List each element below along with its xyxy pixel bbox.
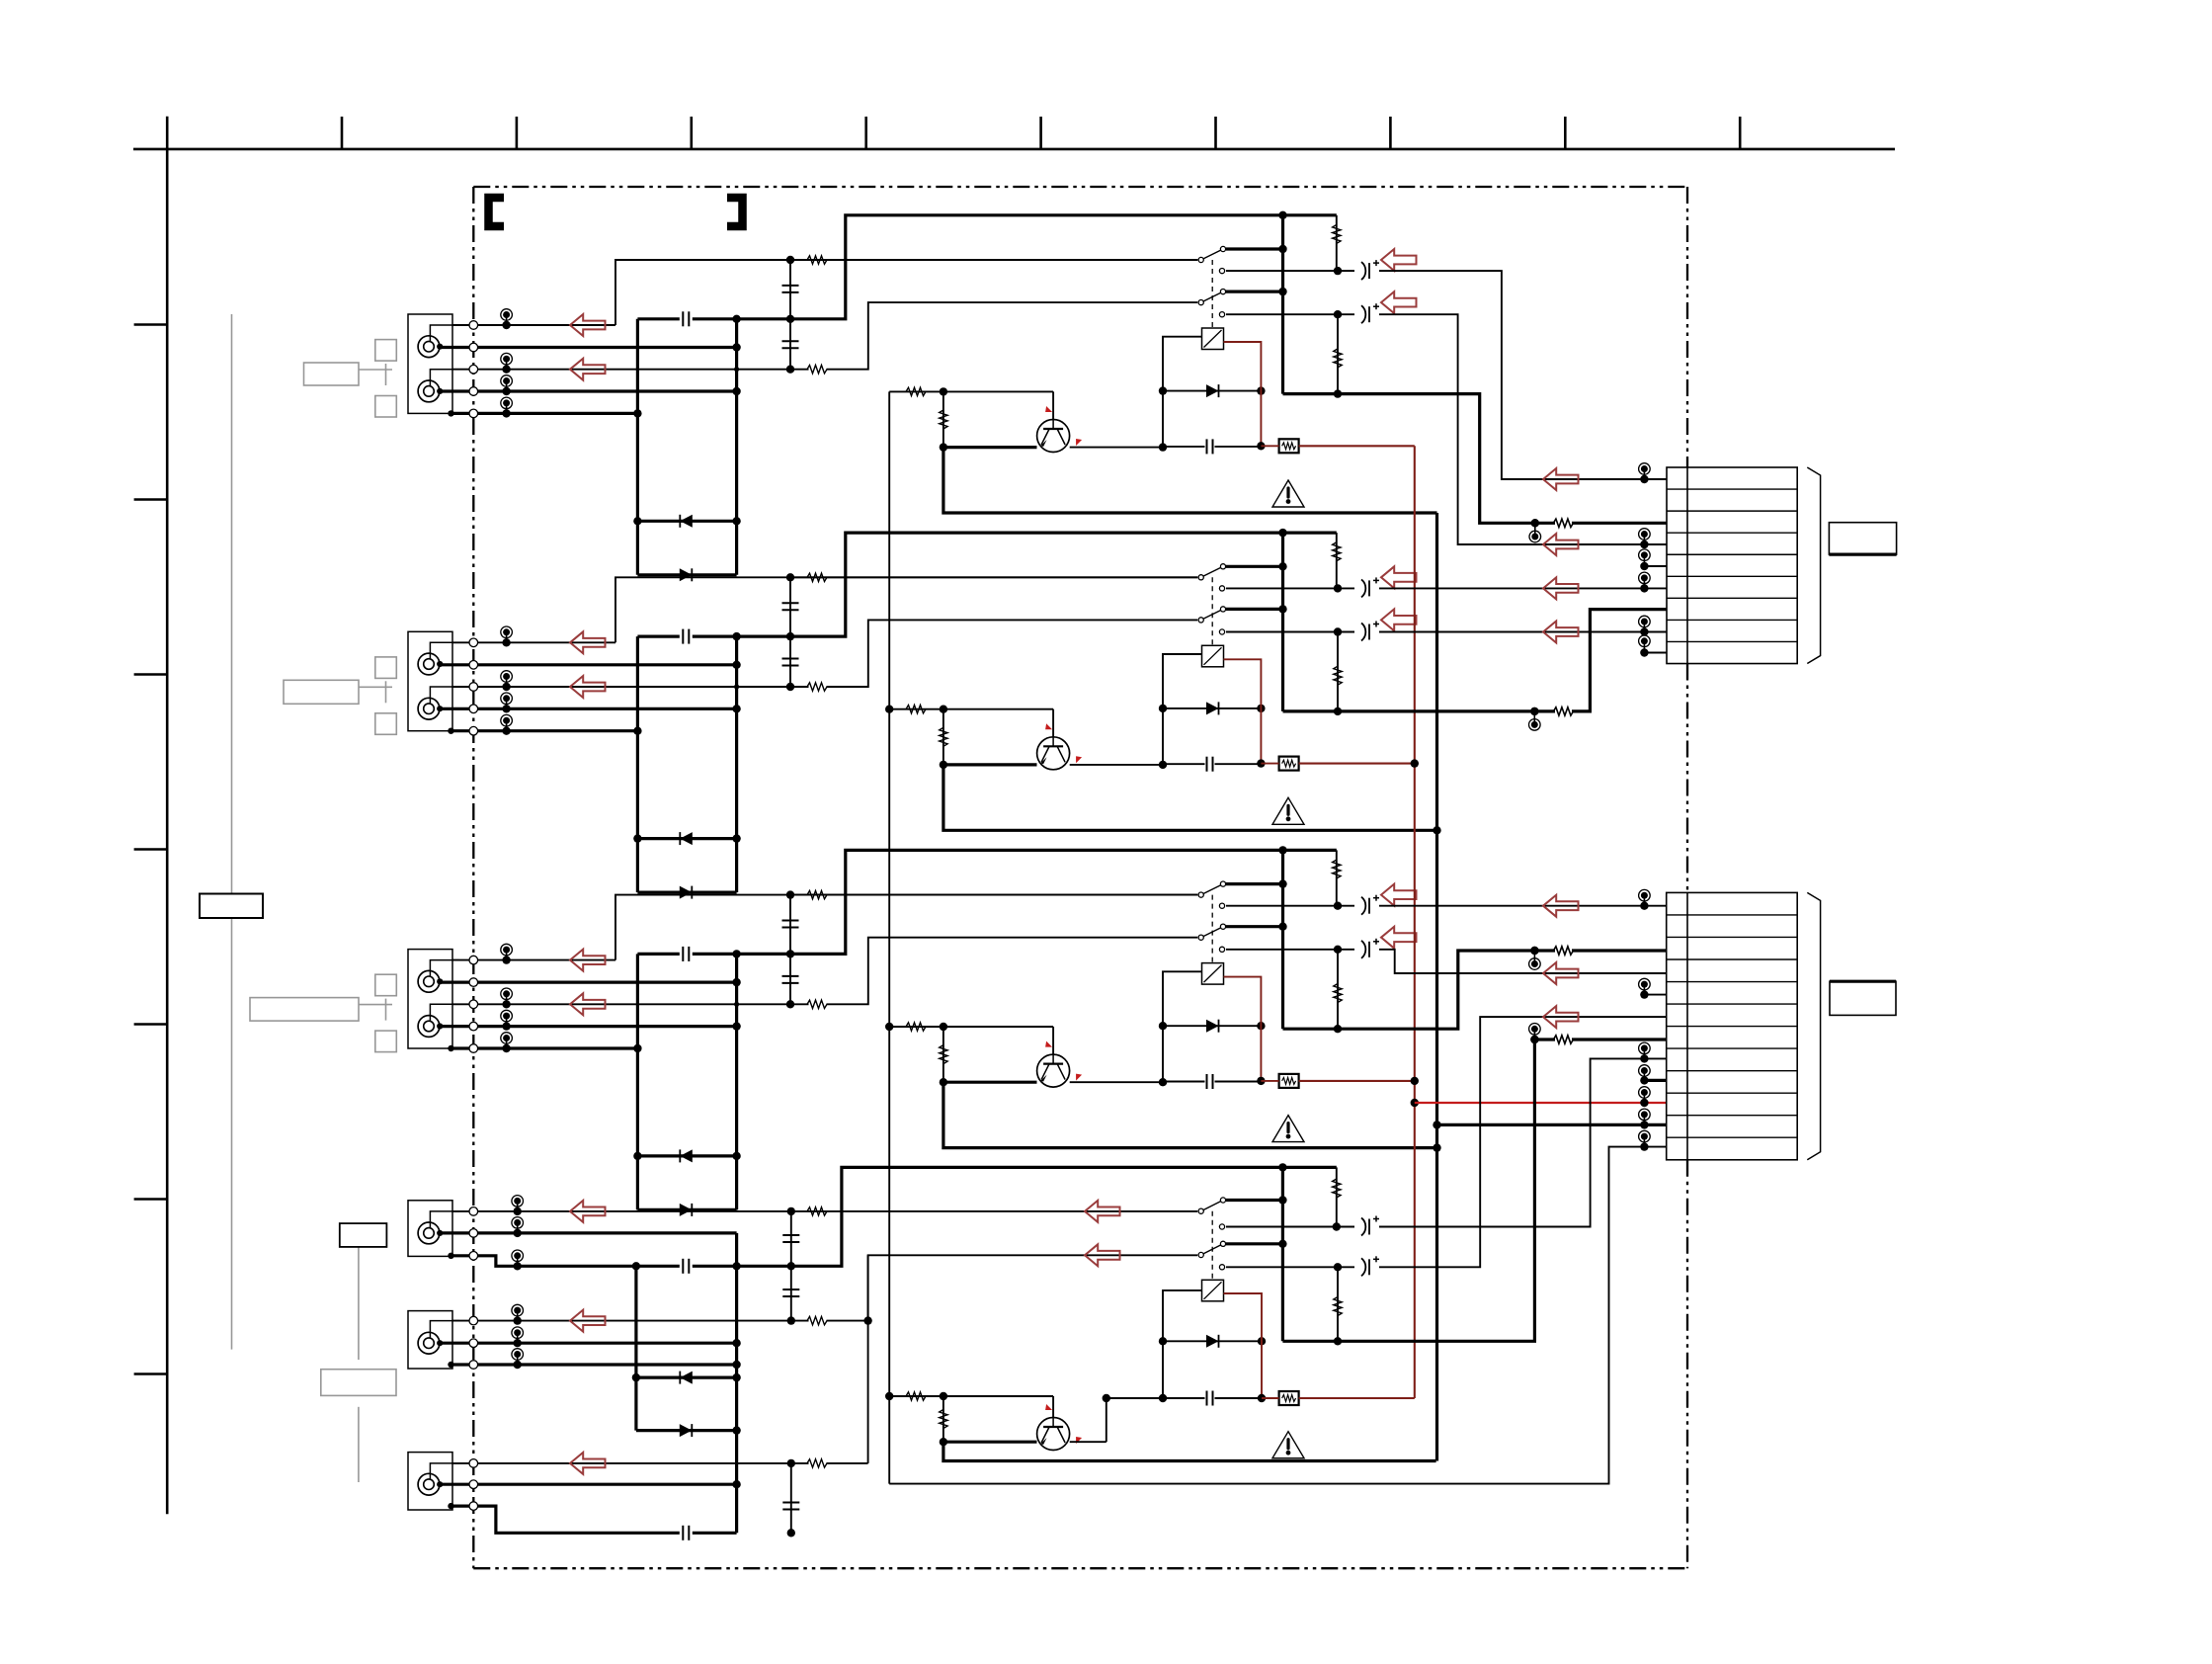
transistor output wire (channel 1) xyxy=(1070,447,1163,449)
RCA jack J1a xyxy=(418,336,440,358)
signal arrow row1 (channel 3) xyxy=(570,950,606,971)
test point on row y=418.4 (channel 1) xyxy=(506,403,508,414)
grey terminal square upper (channel 2) xyxy=(375,657,397,679)
border feed-throughs jack A xyxy=(469,1207,478,1216)
border feed-through row 3 (channel 2) xyxy=(469,683,478,692)
clamp diode D2b xyxy=(637,890,736,893)
mute relay RY4 xyxy=(1202,1280,1224,1301)
switch bus vertical (channel 3) xyxy=(1281,850,1284,1029)
top ruler tick 5 xyxy=(1039,117,1042,149)
clamp network right rail (channel 4) xyxy=(735,1233,738,1533)
jack A internal wiring xyxy=(430,1211,459,1228)
RCA jack J2b xyxy=(418,698,440,719)
selector contact 2 (channel 4) xyxy=(1226,1242,1282,1245)
relay contact wire maroon (channel 4) xyxy=(1224,1293,1263,1398)
wire: row3 jog to selector row2 (channel 2) xyxy=(827,620,1198,687)
channel 4 mute bus to CN2 pin7 xyxy=(1282,1040,1555,1341)
output jog to cap row (channel 4) xyxy=(1106,1398,1107,1442)
wire: jack ground row 5 (channel 2) xyxy=(452,729,637,732)
top ruler tick 9 xyxy=(1739,117,1742,149)
connector CN1 row line 8 xyxy=(1667,640,1797,642)
wire: jack C tip row xyxy=(452,1462,809,1464)
selector feed arrow row1 (channel 1) xyxy=(1381,249,1417,271)
bias rail bottom wire to connector CN2 pin12 xyxy=(889,1147,1644,1484)
border feed-through row 4 (channel 3) xyxy=(469,1022,478,1031)
wire cap row left (channel 4) xyxy=(1106,1397,1205,1399)
junction dots clamp rails (channel 2) xyxy=(732,661,740,669)
selector feed arrow row2 (channel 1) xyxy=(1381,291,1417,313)
warning triangle (channel 2) xyxy=(1272,797,1304,824)
service border (dash-dot) right edge middle xyxy=(1686,664,1688,893)
selector contact 1 (channel 4) xyxy=(1226,1199,1282,1202)
right bracket glyph xyxy=(727,198,743,226)
ground coupling capacitor (channel 4) xyxy=(682,1526,684,1540)
relay diode D1c xyxy=(1163,390,1261,392)
selector switch lever 2 (channel 1) xyxy=(1201,291,1223,302)
wire: jack A signal row xyxy=(441,1231,737,1234)
selector switch lever 1 (channel 3) xyxy=(1201,884,1223,895)
relay coil wire (channel 1) xyxy=(1163,337,1202,448)
selector contact 1 (channel 3) xyxy=(1226,882,1283,885)
fusible output wire maroon (channel 3) xyxy=(1299,1080,1415,1082)
border feed-through row 3 (channel 1) xyxy=(469,365,478,374)
RCA jack J3b xyxy=(418,1016,440,1038)
signal arrow row3 (channel 2) xyxy=(570,676,606,698)
jack C internal wiring xyxy=(430,1463,459,1479)
clamp network right rail (channel 1) xyxy=(735,319,738,575)
left ruler tick 3 xyxy=(134,673,168,676)
relay coil wire (channel 2) xyxy=(1163,654,1202,765)
RCA jack J4a xyxy=(418,1222,440,1244)
selector contact 1 (channel 2) xyxy=(1226,565,1283,568)
bias resistor lower (channel 2) xyxy=(1337,632,1339,711)
resistor on selector row1 (channel 1) xyxy=(790,259,1197,261)
fusible output wire maroon (channel 2) xyxy=(1299,763,1415,765)
wire: jack signal row 4 (channel 2) xyxy=(441,707,737,710)
connector CN1 label box xyxy=(1829,523,1896,554)
left ruler tick 1 xyxy=(134,323,168,326)
bias resistor lower (channel 3) xyxy=(1337,950,1339,1029)
grey terminal square lower (channel 3) xyxy=(375,1031,397,1052)
connector CN2 row line 4 xyxy=(1667,981,1798,983)
channel 4 cap B wire to CN2 pin6 xyxy=(1379,1017,1667,1267)
connector CN2 row line 11 xyxy=(1667,1136,1798,1138)
fusible resistor (channel 1) xyxy=(1279,439,1299,453)
CN1 pin5 test point stub xyxy=(1643,555,1645,566)
clamp network left rail (channel 2) xyxy=(636,636,639,892)
transistor output wire (channel 2) xyxy=(1070,764,1163,766)
RCA jack J4b xyxy=(418,1332,440,1354)
wire: jack ground row 5 (channel 1) xyxy=(452,412,637,415)
mute transistor Q2 xyxy=(943,763,1037,766)
border feed-through row 5 (channel 3) xyxy=(469,1044,478,1053)
wire: jack tip row 3 (channel 3) xyxy=(452,1003,809,1005)
connector CN2 row line 5 xyxy=(1667,1003,1798,1005)
selector switch lever 2 (channel 4) xyxy=(1201,1244,1223,1255)
selector throw 2 wire with reservoir cap (channel 2) xyxy=(1219,629,1224,634)
test point on row y=1061 (channel 3) xyxy=(506,1039,508,1049)
selector switch lever 1 (channel 1) xyxy=(1201,249,1223,260)
riser to switch bus (channel 4) xyxy=(791,1167,1337,1266)
channel 2 cap A wire to CN1 pin6 xyxy=(1379,587,1644,589)
border feed-through row 2 (channel 1) xyxy=(469,343,478,352)
cap rowC-ground (channel 4) xyxy=(790,1463,792,1533)
wire: jack signal row 2 (channel 1) xyxy=(441,346,737,349)
test point on row y=1016.3 (channel 3) xyxy=(506,994,508,1005)
junction dots clamp rails (channel 4) xyxy=(732,1339,740,1347)
coupling capacitor (channel 2) xyxy=(637,634,679,637)
bias feed vertical rail xyxy=(888,391,890,1483)
channel 1 cap B wire to CN1 pin4 xyxy=(1379,314,1644,544)
grey terminal square lower (channel 1) xyxy=(375,396,397,418)
selector throw 1 wire with reservoir cap (channel 4) xyxy=(1219,1224,1224,1229)
relay diode D3c xyxy=(1163,1025,1261,1027)
wire: jack A ground row xyxy=(452,1256,636,1267)
RCA jack J4c xyxy=(418,1473,440,1495)
grey terminal square lower (channel 2) xyxy=(375,713,397,735)
service border (dash-dot) top edge xyxy=(473,186,1687,188)
grey leader T (channel 1) xyxy=(359,369,392,371)
wire: row B jog to selector row2 (channel 4) xyxy=(827,1255,1198,1320)
RCA jack box B (channel 4) xyxy=(408,1311,452,1369)
signal arrow row3 (channel 1) xyxy=(570,359,606,380)
switch bus vertical (channel 1) xyxy=(1281,215,1284,394)
CN2 pin12 test point stub xyxy=(1643,1136,1645,1147)
clamp diode D3a xyxy=(637,1154,736,1157)
test point on row y=1038.6 (channel 3) xyxy=(506,1016,508,1027)
transistor ground return (channel 4) xyxy=(943,1442,1436,1460)
relay contact wire (maroon) (channel 1) xyxy=(1224,342,1262,446)
wire: jack tip row 1 (channel 1) xyxy=(452,324,615,326)
connector CN1 row line 5 xyxy=(1667,575,1797,577)
border feed-through row 1 (channel 2) xyxy=(469,638,478,647)
selector contact 2 (channel 3) xyxy=(1226,925,1283,928)
resistor on row3 (channel 1) xyxy=(807,366,827,374)
left ruler tick 4 xyxy=(134,848,168,851)
selector feed arrow ch4 row2 xyxy=(1085,1244,1120,1266)
resistor on selector row1 (channel 2) xyxy=(790,576,1197,578)
bias resistor upper (channel 1) xyxy=(1336,215,1338,271)
border feed-through row 1 (channel 3) xyxy=(469,956,478,964)
channel 3 cap B wire to CN2 pin4 xyxy=(1379,950,1667,973)
cap capout-row3 (channel 1) xyxy=(789,319,791,370)
resistor on row B (channel 4) xyxy=(807,1316,827,1324)
mute relay RY3 xyxy=(1202,963,1224,985)
relay coil wire (channel 4) xyxy=(1163,1290,1202,1398)
channel 3 mute bus to CN2 pin3 xyxy=(1283,951,1526,1029)
top ruler tick 6 xyxy=(1214,117,1217,149)
RCA jack box C (channel 4) xyxy=(408,1453,452,1510)
junction dots clamp rails (channel 1) xyxy=(732,343,740,351)
resistor on row A (channel 4) xyxy=(807,1207,827,1215)
riser to switch bus (channel 3) xyxy=(790,850,1337,954)
connector CN1 row line 1 xyxy=(1667,488,1797,490)
signal arrow jack A xyxy=(570,1201,606,1222)
connector CN2 row line 1 xyxy=(1667,914,1798,916)
signal arrow row1 (channel 2) xyxy=(570,631,606,653)
mute relay RY2 xyxy=(1202,645,1224,667)
wire: row1 to selector (channel 3) xyxy=(615,895,1197,960)
grey label box (channel 1) xyxy=(304,363,360,385)
border feed-through row 3 (channel 3) xyxy=(469,1000,478,1009)
mute drive resistor B (channel 1) xyxy=(942,391,944,447)
connector CN1 row line 2 xyxy=(1667,510,1797,512)
connector CN2 row line 6 xyxy=(1667,1026,1798,1028)
clamp network right rail (channel 2) xyxy=(735,636,738,892)
wire: jack B ground row xyxy=(452,1363,737,1366)
maroon supply rail vertical xyxy=(1414,446,1416,1398)
grey terminal square upper (channel 3) xyxy=(375,974,397,996)
service border (dash-dot) right edge upper xyxy=(1686,187,1688,467)
test point on row y=739.7 (channel 2) xyxy=(506,720,508,731)
label box on grey leader xyxy=(200,894,263,919)
selector gang dashed link (channel 2) xyxy=(1211,577,1213,645)
RCA jack pair box (channel 2) xyxy=(408,631,452,730)
wire: jack tip row 1 (channel 2) xyxy=(452,641,615,643)
bias resistor upper (channel 4) xyxy=(1336,1167,1338,1226)
cap row1-capout (channel 3) xyxy=(789,895,791,955)
mute drive resistor B (channel 4) xyxy=(942,1396,944,1442)
test point on row y=695 (channel 2) xyxy=(506,677,508,688)
mute transistor Q3 xyxy=(943,1081,1037,1084)
service border (dash-dot) right edge lower xyxy=(1686,1160,1688,1568)
connector CN1 row line 4 xyxy=(1667,553,1797,555)
test points jack B xyxy=(517,1310,519,1321)
resistor on row C (channel 4) xyxy=(807,1459,827,1467)
mute coupling capacitor (channel 1) xyxy=(1163,446,1205,448)
selector feed arrow row1 (channel 2) xyxy=(1381,566,1417,588)
left ruler tick 6 xyxy=(134,1198,168,1201)
connector CN2 row line 10 xyxy=(1667,1115,1798,1117)
border feed-throughs jack B xyxy=(469,1316,478,1325)
clamp diode D1b xyxy=(637,573,736,576)
left ruler tick 5 xyxy=(134,1023,168,1026)
signal arrow row1 (channel 1) xyxy=(570,314,606,336)
top ruler tick 2 xyxy=(516,117,519,149)
grey leader T (channel 3) xyxy=(359,1004,392,1006)
selector throw 1 wire with reservoir cap (channel 1) xyxy=(1219,269,1224,274)
channel 1 cap A wire to CN1 pin1 xyxy=(1379,271,1644,479)
coupling capacitor (channel 4) xyxy=(636,1265,680,1268)
CN2 pin10 test point xyxy=(1643,1093,1645,1104)
fusible output wire maroon (channel 4) xyxy=(1299,1397,1415,1399)
connector CN2 row line 8 xyxy=(1667,1070,1798,1072)
wire: jack tip row 3 (channel 2) xyxy=(452,686,809,688)
connector CN1 row line 3 xyxy=(1667,532,1797,534)
channel 3 cap A wire to CN2 pin1 xyxy=(1379,905,1644,907)
connector CN2 row line 7 xyxy=(1667,1047,1798,1049)
transistor ground return (channel 2) xyxy=(943,765,1437,830)
mute drive resistor A (channel 4) xyxy=(889,1395,1053,1397)
resistor on selector row1 (channel 3) xyxy=(790,894,1197,896)
border feed-through row 1 (channel 1) xyxy=(469,321,478,330)
relay contact wire (maroon) (channel 3) xyxy=(1224,977,1262,1081)
connector CN1 row line 6 xyxy=(1667,597,1797,599)
grey terminal square upper (channel 1) xyxy=(375,340,397,362)
clamp diode D1a xyxy=(637,520,736,523)
test point on row y=373.7 (channel 1) xyxy=(506,359,508,370)
wire: row C to jog rail (channel 4) xyxy=(827,1462,868,1464)
grey leader T (channel 2) xyxy=(359,686,392,688)
coupling capacitor (channel 3) xyxy=(637,953,679,956)
test point on row y=396 (channel 1) xyxy=(506,381,508,392)
grey label box (channel 3) xyxy=(250,998,359,1022)
mute drive resistor A (channel 2) xyxy=(889,708,1053,710)
coupling capacitor (channel 1) xyxy=(637,317,679,320)
test point on row y=329 (channel 1) xyxy=(506,315,508,326)
channel 2 mute bus to CN1 pin7 xyxy=(1283,709,1556,712)
channel 4 cap A wire to CN2 pin8 xyxy=(1379,1058,1644,1226)
CN2 pin5 test point stub xyxy=(1643,984,1645,995)
switch bus vertical (channel 4) xyxy=(1281,1167,1284,1341)
warning triangle (channel 3) xyxy=(1272,1116,1304,1142)
cap row1-capout (channel 2) xyxy=(789,577,791,636)
fusible output wire maroon (channel 1) xyxy=(1299,445,1415,447)
wire: jack B tip row xyxy=(452,1320,809,1322)
transistor output wire (channel 4) xyxy=(1070,1441,1106,1443)
grey leader vertical line (left margin) xyxy=(231,314,233,1350)
mute drive resistor B (channel 3) xyxy=(942,1027,944,1082)
wire: jack ground row 5 (channel 3) xyxy=(452,1046,637,1049)
connector CN2 pin column divider xyxy=(1686,892,1688,1159)
top ruler tick 1 xyxy=(341,117,344,149)
top ruler tick 3 xyxy=(690,117,693,149)
wire: jack signal row 4 (channel 1) xyxy=(441,389,737,392)
bias resistor upper (channel 3) xyxy=(1336,850,1338,905)
RCA jack box A (channel 4) xyxy=(408,1201,452,1257)
mute transistor Q4 xyxy=(943,1441,1037,1444)
relay coil wire (channel 3) xyxy=(1163,971,1202,1082)
jog rail rowB/rowC (channel 4) xyxy=(867,1255,869,1463)
selector throw 2 wire with reservoir cap (channel 4) xyxy=(1219,1265,1224,1270)
jack internal wiring (channel 3) xyxy=(430,960,459,977)
selector feed arrow row2 (channel 2) xyxy=(1381,609,1417,630)
connector CN2 row line 2 xyxy=(1667,936,1798,938)
wire: jack signal row 4 (channel 3) xyxy=(441,1025,737,1028)
clamp diode D3b xyxy=(637,1208,736,1211)
top ruler tick 7 xyxy=(1389,117,1392,149)
wire: jack C signal row xyxy=(441,1483,737,1486)
service border (dash-dot) bottom edge xyxy=(473,1567,1687,1569)
grey leader vertical (channel 4 upper) xyxy=(358,1247,360,1360)
wire: jack A tip row xyxy=(452,1210,1197,1212)
jack B internal wiring xyxy=(430,1321,459,1338)
border feed-through row 2 (channel 3) xyxy=(469,978,478,987)
wire: jack tip row 3 (channel 1) xyxy=(452,369,809,371)
clamp diode D4b xyxy=(636,1429,737,1432)
selector gang dashed link (channel 1) xyxy=(1211,260,1213,328)
CN1 pin9 test point stub xyxy=(1643,641,1645,653)
mute drive resistor A (channel 3) xyxy=(889,1026,1053,1028)
connector CN2 row line 9 xyxy=(1667,1092,1798,1094)
wire: row1 to selector (channel 2) xyxy=(615,577,1197,642)
speaker return bus vertical xyxy=(1435,513,1438,1461)
bias resistor lower (channel 4) xyxy=(1337,1267,1339,1341)
selector feed arrow row1 (channel 3) xyxy=(1381,884,1417,906)
jack internal wiring (channel 2) xyxy=(430,642,459,659)
riser to switch bus (channel 1) xyxy=(790,215,1337,319)
mute drive resistor A (channel 1) xyxy=(889,390,1053,392)
grey label box (channel 4) xyxy=(321,1370,396,1396)
test points jack A xyxy=(517,1201,519,1211)
mute coupling capacitor (channel 4) xyxy=(1215,1397,1263,1399)
wire: row1 to selector (channel 1) xyxy=(615,260,1197,325)
mute transistor Q1 xyxy=(943,446,1037,449)
selector throw 2 wire with reservoir cap (channel 1) xyxy=(1219,312,1224,317)
signal arrow jack B xyxy=(570,1310,606,1332)
bias resistor lower (channel 1) xyxy=(1337,314,1339,393)
test point on row y=650.3 (channel 2) xyxy=(506,632,508,643)
wire: jack signal row 2 (channel 3) xyxy=(441,980,737,983)
border feed-through row 5 (channel 1) xyxy=(469,409,478,418)
selector switch lever 2 (channel 2) xyxy=(1201,609,1223,620)
relay diode D2c xyxy=(1163,707,1261,709)
transistor ground return (channel 3) xyxy=(943,1082,1437,1147)
connector CN1 pin column divider xyxy=(1686,467,1688,664)
switch bus vertical (channel 2) xyxy=(1281,533,1284,711)
cap capout-rowB (channel 4) xyxy=(790,1266,792,1320)
resistor on row3 (channel 3) xyxy=(807,1000,827,1008)
left bracket glyph xyxy=(489,198,505,226)
grey label box (channel 2) xyxy=(284,680,359,704)
clamp network right rail (channel 3) xyxy=(735,954,738,1209)
wire: jack C ground row xyxy=(452,1506,680,1533)
connector CN1 body xyxy=(1667,467,1797,664)
selector throw 1 wire with reservoir cap (channel 2) xyxy=(1219,586,1224,591)
RCA jack pair box (channel 3) xyxy=(408,950,452,1048)
left ruler tick 2 xyxy=(134,498,168,501)
mute drive resistor B (channel 2) xyxy=(942,709,944,765)
border feed-throughs jack C xyxy=(469,1459,478,1468)
wire: jack B signal row xyxy=(441,1342,737,1345)
cap capout-row3 (channel 2) xyxy=(789,636,791,687)
relay diode D4c xyxy=(1163,1340,1262,1342)
selector gang dashed link (channel 3) xyxy=(1211,895,1213,963)
warning triangle (channel 4) xyxy=(1272,1432,1304,1458)
channel 1 mute bus to CN1 pin3 xyxy=(1283,394,1556,524)
test point on row y=717.3 (channel 2) xyxy=(506,699,508,709)
left ruler tick 7 xyxy=(134,1373,168,1375)
clamp diode D4a xyxy=(636,1375,737,1378)
riser to switch bus (channel 2) xyxy=(790,533,1337,636)
top ruler tick 8 xyxy=(1564,117,1567,149)
wire: jack signal row 2 (channel 2) xyxy=(441,663,737,666)
selector throw 2 wire with reservoir cap (channel 3) xyxy=(1219,947,1224,952)
fusible resistor (channel 2) xyxy=(1279,757,1299,771)
junction dots clamp rails (channel 3) xyxy=(732,978,740,986)
jack internal wiring (channel 1) xyxy=(430,325,459,342)
test point on row y=971.6 (channel 3) xyxy=(506,950,508,960)
page frame left ruler line xyxy=(166,117,169,1515)
relay contact wire (maroon) (channel 2) xyxy=(1224,659,1262,763)
RCA jack pair box (channel 1) xyxy=(408,314,452,413)
selector switch lever 1 (channel 2) xyxy=(1201,566,1223,577)
cap capout-row3 (channel 3) xyxy=(789,954,791,1004)
selector feed arrow row2 (channel 3) xyxy=(1381,927,1417,949)
clamp network left rail (channel 4) xyxy=(634,1266,637,1430)
CN2 pin9 test point stub xyxy=(1643,1071,1645,1081)
selector switch lever 1 (channel 4) xyxy=(1201,1201,1223,1211)
border feed-through row 4 (channel 2) xyxy=(469,705,478,713)
transistor output wire (channel 3) xyxy=(1070,1081,1163,1083)
fusible resistor (channel 4) xyxy=(1279,1391,1299,1405)
connector CN2 bracket xyxy=(1807,892,1820,1159)
cap rowA-capout (channel 4) xyxy=(790,1211,792,1266)
selector contact 1 (channel 1) xyxy=(1226,247,1283,250)
mute relay RY1 xyxy=(1202,328,1224,350)
resistor on row3 (channel 2) xyxy=(807,683,827,691)
page frame top ruler line xyxy=(133,148,1895,151)
